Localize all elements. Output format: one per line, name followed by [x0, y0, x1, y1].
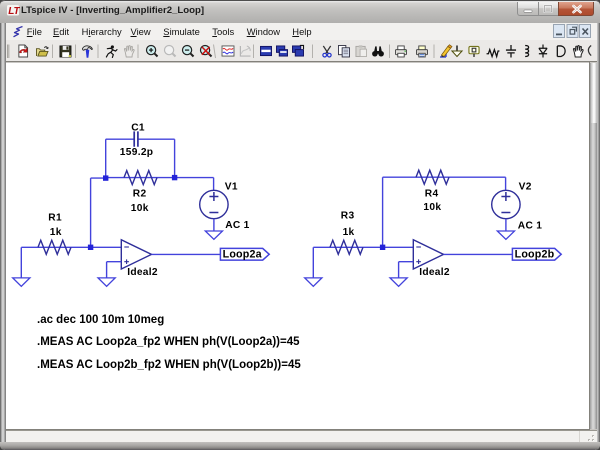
svg-text:R2: R2 [133, 188, 147, 199]
svg-text:R1: R1 [48, 212, 62, 223]
svg-text:Ideal2: Ideal2 [127, 267, 158, 278]
svg-text:R4: R4 [425, 188, 439, 199]
svg-text:R3: R3 [341, 210, 355, 221]
svg-text:AC 1: AC 1 [225, 220, 249, 231]
svg-text:159.2p: 159.2p [120, 147, 154, 158]
svg-text:V1: V1 [225, 182, 238, 193]
svg-text:Loop2a: Loop2a [223, 249, 263, 261]
svg-text:.ac dec 100 10m 10meg: .ac dec 100 10m 10meg [37, 314, 164, 326]
svg-text:.MEAS AC Loop2a_fp2 WHEN ph(V(: .MEAS AC Loop2a_fp2 WHEN ph(V(Loop2a))=4… [37, 336, 300, 348]
svg-text:.MEAS AC Loop2b_fp2 WHEN ph(V(: .MEAS AC Loop2b_fp2 WHEN ph(V(Loop2b))=4… [37, 359, 301, 371]
svg-text:LT: LT [8, 6, 20, 16]
svg-text:10k: 10k [131, 203, 149, 214]
svg-text:10k: 10k [423, 202, 441, 213]
svg-text:C1: C1 [131, 123, 145, 134]
svg-text:V2: V2 [519, 182, 532, 193]
svg-text:1k: 1k [50, 227, 62, 238]
svg-text:Ideal2: Ideal2 [419, 267, 450, 278]
svg-text:AC 1: AC 1 [518, 221, 542, 232]
svg-text:Loop2b: Loop2b [515, 249, 555, 261]
svg-text:1k: 1k [343, 227, 355, 238]
